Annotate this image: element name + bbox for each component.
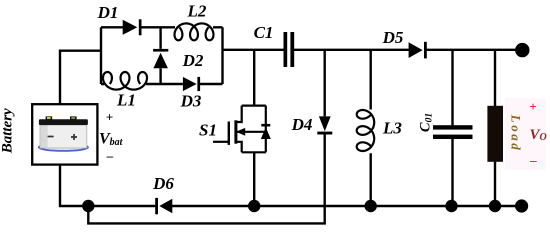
- transistor S1 gate bar: [228, 122, 230, 145]
- wire L3 branch: [370, 50, 372, 206]
- node output terminal top dot: [515, 43, 529, 57]
- node output terminal bottom dot: [515, 199, 528, 212]
- transistor Q S1 mosfet structure: [213, 106, 266, 153]
- svg-text:D5: D5: [382, 28, 404, 47]
- node junction dot load bottom: [489, 200, 501, 212]
- wire C01 branch: [451, 50, 453, 206]
- wire bottom ground rail segments: [88, 205, 518, 207]
- wire loop right edge: [221, 27, 223, 84]
- inductor L2: [175, 23, 214, 40]
- wire S1 source to ground: [253, 152, 255, 206]
- svg-text:C01: C01: [418, 113, 435, 132]
- wire loop bottom side segments: [101, 83, 223, 85]
- svg-text:D4: D4: [291, 115, 313, 134]
- svg-text:L3: L3: [382, 119, 402, 138]
- svg-text:D1: D1: [97, 3, 119, 22]
- node junction dot C01 bottom: [445, 200, 457, 212]
- svg-text:L1: L1: [116, 91, 136, 110]
- battery B1 box: [32, 104, 97, 164]
- svg-text:D3: D3: [180, 92, 202, 111]
- node junction dot S1 source: [248, 200, 260, 212]
- wire D4 branch lower and bypass return: [88, 134, 324, 224]
- wire S1 drain tap: [253, 50, 255, 106]
- svg-text:S1: S1: [199, 121, 217, 140]
- svg-text:–: –: [106, 148, 114, 163]
- node junction dot L3 bottom: [365, 200, 377, 212]
- diode D5: [409, 42, 427, 59]
- decorative tint (not labelled): [505, 98, 546, 170]
- svg-text:+: +: [529, 99, 536, 114]
- inductor L3: [357, 110, 374, 151]
- capacitor C1: [284, 32, 295, 67]
- inductor L1: [103, 72, 147, 90]
- wire D2 branch verticals: [159, 27, 161, 84]
- diode S1 body diode: [261, 124, 271, 139]
- battery B1 icon body: [39, 116, 88, 150]
- svg-text:C1: C1: [254, 23, 274, 42]
- svg-text:L2: L2: [187, 2, 207, 21]
- wire load branch: [494, 50, 496, 206]
- svg-text:D2: D2: [182, 51, 204, 70]
- capacitor C01: [433, 125, 473, 139]
- svg-text:D6: D6: [152, 174, 174, 193]
- svg-text:Load: Load: [509, 114, 524, 152]
- wire loop left edge: [100, 27, 102, 84]
- node junction dot battery negative: [82, 200, 94, 212]
- resistor load block: [487, 106, 503, 162]
- diode D6: [155, 198, 172, 214]
- wire battery negative to ground rail: [60, 164, 88, 206]
- wire D4 branch upper: [324, 50, 326, 117]
- svg-text:+: +: [106, 110, 113, 125]
- diode D1: [123, 19, 142, 35]
- transistor S1 arrow head: [236, 128, 245, 136]
- svg-text:–: –: [529, 153, 537, 168]
- wire loop top side segments: [101, 26, 223, 28]
- node main bus wire: [223, 49, 520, 51]
- diode D4: [317, 116, 332, 134]
- diode D3: [183, 77, 200, 91]
- transistor S1 channel bar: [234, 120, 237, 143]
- svg-text:Battery: Battery: [0, 108, 16, 154]
- svg-text:Vbat: Vbat: [99, 131, 124, 149]
- wire battery positive feed: [60, 51, 101, 105]
- diode D2: [153, 49, 168, 68]
